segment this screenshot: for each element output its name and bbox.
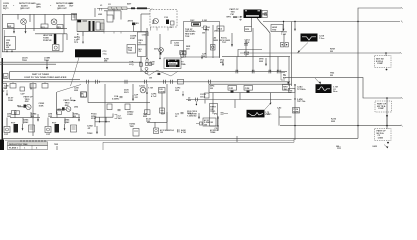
stage B driver sym <box>45 127 51 133</box>
wire top bus <box>2 13 77 15</box>
node lower mid <box>196 101 197 105</box>
wire bracket over q4 <box>171 41 184 48</box>
arrow mid left <box>71 100 76 102</box>
driver stage mid components b <box>57 107 67 110</box>
node j1 <box>386 97 388 99</box>
label dial L1C2 <box>100 4 112 7</box>
label 17m dius <box>333 86 338 93</box>
label c2ca 100 <box>200 93 206 98</box>
svg-text:STAT: STAT <box>130 37 136 40</box>
wire vertical c214 <box>245 40 247 57</box>
cap C30 pair <box>146 58 161 66</box>
node agc jct <box>385 52 387 56</box>
svg-text:LM: LM <box>202 56 205 58</box>
K214 box corner <box>238 50 262 57</box>
wire vertical sect e2 <box>291 22 293 87</box>
wire bus feed arrows <box>283 22 296 32</box>
node j7 <box>294 98 295 99</box>
wire vertical mid col a <box>205 28 207 58</box>
label 4c21 tm2 <box>146 117 152 122</box>
arrow det col <box>132 95 134 101</box>
node j3 <box>386 125 388 127</box>
arrow k2 <box>198 113 200 119</box>
label deflector header <box>9 144 38 150</box>
label c22 j2 <box>175 113 180 117</box>
wire vertical v3c <box>29 14 31 22</box>
label rate hon <box>138 40 143 53</box>
label jm2cop4 <box>187 110 198 117</box>
transistor Q4 detector <box>154 48 163 55</box>
node j5 <box>357 21 358 22</box>
resistor R1 <box>8 24 15 28</box>
wire vertical q205 <box>252 28 254 57</box>
label c72 <box>103 51 108 55</box>
bottom strip dark segment <box>5 139 294 141</box>
wire vertical v3 <box>33 14 35 28</box>
svg-text:NPO: NPO <box>227 17 232 19</box>
label come stat <box>130 35 137 39</box>
box HOW7HD <box>271 25 283 32</box>
antenna tap <box>132 23 135 32</box>
note arrow TP1 <box>82 32 84 45</box>
svg-text:TRE: TRE <box>128 50 133 52</box>
label po24 <box>91 112 97 120</box>
wire lower main bus <box>3 81 290 83</box>
wire vertical audio col <box>294 84 296 140</box>
label lor loq <box>129 62 134 66</box>
vertical x240 <box>239 93 241 100</box>
svg-text:C2P: C2P <box>4 134 9 136</box>
label jpm2 <box>22 57 28 62</box>
label c2r boxes b <box>244 86 253 93</box>
transistor Q1 <box>21 19 27 25</box>
label ground ned <box>185 26 210 38</box>
resistor RF2 box <box>245 27 252 32</box>
converter Q3 internals <box>151 20 175 31</box>
wire vertical lower r2 <box>234 100 236 109</box>
cap tick k1 <box>181 113 184 114</box>
cap tick lower mid <box>196 98 198 102</box>
label roes treo <box>128 47 133 51</box>
svg-text:LOQ: LOQ <box>129 64 134 66</box>
wire audio diag arrow <box>265 93 272 110</box>
label coml tuc <box>202 53 207 57</box>
svg-text:1.5M: 1.5M <box>142 34 147 36</box>
label 172 jm2 <box>265 112 271 116</box>
wire bottom bus <box>3 137 358 139</box>
svg-text:T2P-THz: T2P-THz <box>297 101 305 103</box>
box tone <box>133 129 139 137</box>
if amp box small <box>81 92 87 97</box>
label mp2 box right <box>283 85 290 91</box>
svg-text:JM: JM <box>210 88 213 90</box>
svg-text:JM: JM <box>336 146 339 148</box>
label c243 <box>118 115 122 119</box>
node j5b <box>283 21 284 22</box>
tuner box bottom <box>10 78 81 80</box>
svg-text:C204: C204 <box>174 44 180 47</box>
svg-text:QRN: QRN <box>36 6 41 8</box>
arrow vol pot 1 <box>222 60 224 66</box>
bracket right mid <box>281 73 289 84</box>
svg-text:C2R: C2R <box>229 88 234 90</box>
wire vertical lower l7 <box>161 93 163 114</box>
box mc bottom right <box>145 110 151 115</box>
svg-text:1M42: 1M42 <box>64 121 70 124</box>
label ant2 <box>128 19 140 25</box>
capacitor C2 arrow gnd <box>25 31 27 33</box>
black box audio waveform W2 <box>247 110 265 118</box>
svg-text:7.7M: 7.7M <box>148 87 153 89</box>
wire divider lower <box>0 63 56 65</box>
svg-text:TMP: TMP <box>150 64 155 66</box>
svg-text:100K: 100K <box>8 100 14 102</box>
dashed box converter section <box>150 10 177 28</box>
wire if bus <box>88 102 150 104</box>
cap ticks bus82 g <box>208 80 210 84</box>
label c3 top <box>69 3 74 7</box>
cap ticks bus82 d <box>145 80 147 84</box>
ticks row bottom left <box>21 140 45 143</box>
svg-text:4.7M: 4.7M <box>181 131 186 134</box>
stage B out box <box>71 125 77 132</box>
cap tick if bus <box>118 110 121 111</box>
antenna rod L1 <box>97 7 152 11</box>
svg-text:PW: PW <box>264 15 267 17</box>
svg-text:7.5u: 7.5u <box>103 53 108 55</box>
left double line <box>3 30 5 52</box>
svg-text:7.1M: 7.1M <box>245 42 250 44</box>
resistor R4 drop <box>33 29 35 31</box>
capacitor C1 arrow gnd <box>13 31 15 33</box>
node j6 <box>294 125 295 126</box>
wire vertical drop d2 <box>252 57 254 72</box>
wire left column <box>2 14 4 52</box>
svg-text:C2MP: C2MP <box>377 63 383 65</box>
label k2m bus <box>331 119 336 123</box>
transistor Q3 converter <box>153 18 158 23</box>
wire vertical v4 <box>44 14 46 24</box>
driver stage mid components a <box>18 105 26 108</box>
arrow vol pot 2 <box>265 58 267 66</box>
svg-text:4M: 4M <box>31 115 34 118</box>
dark chip marks <box>231 91 250 93</box>
wire end ticks right <box>400 7 403 127</box>
label c2p 9m2 <box>143 113 148 117</box>
resistor R40 box <box>15 111 20 115</box>
wire vertical v3b <box>17 14 19 19</box>
wire diagonal lower <box>57 85 81 93</box>
wire vertical lower l8 <box>166 84 168 130</box>
svg-text:MMW: MMW <box>293 112 299 114</box>
speaker sym S1 <box>53 45 60 51</box>
resistor RC2 box <box>217 26 224 31</box>
wire vertical lower l2 <box>56 92 58 114</box>
svg-text:7.5us: 7.5us <box>319 38 325 40</box>
label j2m4 mid b <box>64 118 70 123</box>
wire lower right bus <box>209 92 292 94</box>
svg-text:4M: 4M <box>73 115 76 118</box>
svg-text:T2T-MHz: T2T-MHz <box>297 89 306 91</box>
transistor Q6 driver <box>26 104 31 109</box>
stage A arrow gnd <box>22 124 24 131</box>
arrow cap c e <box>182 91 184 97</box>
row boxes under bus <box>3 82 48 88</box>
svg-text:T2M2: T2M2 <box>87 133 93 135</box>
box left KES <box>127 45 136 54</box>
label 4c21 70m4 <box>210 129 216 134</box>
cap ticks bus82 e <box>164 80 166 84</box>
V wire detector <box>141 70 178 77</box>
capacitor C5 electrolytic <box>54 34 57 44</box>
svg-text:COMP PO TUN TUNES TEREO AMPLIF: COMP PO TUN TUNES TEREO AMPLIFIER <box>24 76 67 79</box>
box oscillator coil L2 <box>184 22 220 58</box>
wire detector arrow diagonal <box>315 78 321 84</box>
wire arrow into divider <box>46 60 48 70</box>
label 4c21 box <box>204 119 214 127</box>
wire vertical lower r1 <box>212 93 214 114</box>
arrow agc left <box>231 33 233 47</box>
resistor R41 box <box>57 111 62 115</box>
label osc coil <box>190 20 207 22</box>
wire vertical v5 <box>63 14 65 34</box>
box 120 <box>159 88 166 94</box>
cap c5a tick <box>120 97 123 98</box>
svg-text:2P42: 2P42 <box>91 117 97 120</box>
label 4c2 long <box>160 129 174 134</box>
box mc1 <box>81 92 87 97</box>
wire vertical lower l5 <box>132 84 134 99</box>
svg-text:ANT2: ANT2 <box>128 19 134 22</box>
wire right top feed <box>263 21 400 23</box>
label lotr <box>281 31 287 35</box>
label part of trio b <box>64 99 74 107</box>
svg-text:RQ71: RQ71 <box>3 8 9 10</box>
cap ticks bus82 c <box>125 80 127 84</box>
svg-text:12M4: 12M4 <box>378 137 384 140</box>
connector P2 circles <box>145 67 148 74</box>
svg-text:1M: 1M <box>204 125 207 127</box>
label c2c 70m <box>215 128 220 132</box>
label t2mot <box>293 108 300 114</box>
label detector2 <box>56 2 73 10</box>
label c2p half <box>134 94 139 98</box>
label j2m4 mid a <box>23 118 29 123</box>
wire diagonal long <box>71 58 80 87</box>
svg-text:2.2M: 2.2M <box>202 20 207 22</box>
svg-text:LM: LM <box>4 76 7 78</box>
bottom labels row <box>337 145 388 149</box>
dashed box jack mid <box>375 101 392 112</box>
svg-text:7.5us: 7.5us <box>266 113 272 115</box>
svg-text:1M: 1M <box>202 32 205 34</box>
resistor boxes on if bus a <box>107 104 112 110</box>
label band left edge <box>208 84 210 92</box>
wire vertical v7 <box>66 34 68 40</box>
svg-text:7HD: 7HD <box>272 29 277 31</box>
svg-text:TRIO: TRIO <box>44 60 49 62</box>
label c2m tmp <box>150 61 155 65</box>
label 3pm <box>259 58 264 62</box>
stage A driver sym <box>4 127 10 133</box>
wire vertical lower l4 <box>104 84 106 136</box>
cap C214 sym <box>244 44 248 46</box>
wire into converter <box>141 14 150 32</box>
cap ticks bus71 c <box>269 70 271 74</box>
svg-text:QRD OUT: QRD OUT <box>20 8 30 10</box>
label conv q3 <box>164 17 169 19</box>
connector CN1 <box>281 43 289 47</box>
label help me <box>43 35 53 42</box>
node j2 <box>386 115 388 117</box>
label c2m p <box>87 125 93 135</box>
label 3p2 <box>220 59 225 63</box>
box left of that <box>210 104 218 127</box>
svg-text:C2P: C2P <box>161 113 166 115</box>
cap ticks bus71 b <box>252 70 254 74</box>
label ty tma <box>181 61 186 65</box>
transistor Q5 af amp <box>140 87 146 93</box>
push-pull stage A wires <box>7 112 40 126</box>
label coupler <box>98 14 103 16</box>
svg-text:4.7uF: 4.7uF <box>151 95 157 98</box>
node j4 <box>357 125 358 126</box>
wire y99 lower <box>205 99 292 101</box>
wire vertical lower l6 <box>146 84 148 114</box>
cap ticks bus82 a <box>86 80 88 84</box>
wire agc bus <box>240 52 400 54</box>
label q5 <box>139 84 153 89</box>
wire vertical xfmr feed <box>94 8 96 17</box>
dual cap C12 <box>180 51 186 59</box>
label L3 <box>152 21 156 25</box>
box LM left <box>4 74 9 79</box>
label lom4 <box>44 58 51 62</box>
wire vertical det col <box>159 34 161 59</box>
label qrd <box>36 4 41 8</box>
arrow left small <box>30 84 32 90</box>
black box ratio detector <box>164 58 181 69</box>
label tm2 2m <box>330 72 335 76</box>
vert line w dots <box>217 116 218 130</box>
arrow vol gnd <box>96 126 98 134</box>
resistor R20 on bus <box>178 79 184 84</box>
arrow stage A <box>37 118 39 122</box>
label c2m jm2 diag <box>74 87 79 91</box>
wire vertical lower l1 <box>32 84 34 136</box>
osc box feed <box>233 16 242 21</box>
lower mid wires k <box>147 112 167 128</box>
label c2m 100 <box>39 103 45 107</box>
svg-text:1M: 1M <box>160 132 163 134</box>
label dashed bottom right <box>377 129 387 139</box>
wire vertical v2 <box>25 25 27 32</box>
resistor boxes on if bus b <box>125 104 130 110</box>
svg-text:4M: 4M <box>188 99 191 102</box>
svg-text:3Dh: 3Dh <box>154 48 159 50</box>
box small l7 <box>160 108 165 113</box>
wire b+ bus <box>285 78 401 98</box>
svg-text:2M: 2M <box>330 75 333 77</box>
dark slug L2 core <box>192 23 201 27</box>
label pot b <box>52 122 57 124</box>
black box audio waveform W1 <box>316 84 332 93</box>
wire lower mid h <box>186 99 205 101</box>
label c2a 55 <box>112 95 119 100</box>
shield box IF transformer T1 <box>77 20 104 32</box>
label kool <box>219 37 230 44</box>
label box 2M <box>289 88 296 92</box>
stage B pot dark <box>55 124 60 133</box>
wire left mid bottom <box>2 51 63 53</box>
label mc2 <box>81 93 85 97</box>
svg-text:1.3M: 1.3M <box>244 54 249 56</box>
svg-text:100.2: 100.2 <box>200 97 206 99</box>
label amed <box>214 36 219 41</box>
svg-text:LM: LM <box>214 30 217 32</box>
svg-text:7.1M: 7.1M <box>281 34 286 36</box>
svg-text:TO: TO <box>138 51 141 53</box>
tuner box left edge <box>9 72 11 80</box>
svg-text:MN: MN <box>104 60 108 62</box>
wire top-left lower line <box>3 28 67 30</box>
cap tick a2m <box>177 129 179 132</box>
label c214 <box>245 38 251 43</box>
svg-text:RES: RES <box>57 27 62 29</box>
label part of trio a <box>24 95 34 103</box>
stage B arrow gnd <box>64 124 66 131</box>
label pot a <box>11 122 16 124</box>
bracket c243 <box>115 115 118 119</box>
label c2a3 <box>297 85 306 90</box>
label khm 2m <box>330 48 335 52</box>
converter feed corner <box>134 32 149 37</box>
svg-text:PURPLE: PURPLE <box>43 40 52 42</box>
svg-text:PM: PM <box>231 14 234 16</box>
capacitor C3 tuning <box>72 14 77 21</box>
small box left band <box>205 93 210 98</box>
label a2m 47 <box>181 129 186 134</box>
label part of tm1 <box>230 8 240 16</box>
svg-text:LM: LM <box>6 47 9 49</box>
svg-text:100K: 100K <box>39 106 45 108</box>
svg-text:DEFLECTOR TIME: DEFLECTOR TIME <box>9 144 28 146</box>
wire section divider <box>0 61 141 63</box>
svg-text:PLANE 1: PLANE 1 <box>9 147 19 150</box>
node j5c <box>294 21 295 22</box>
resistor R2 <box>41 24 48 28</box>
wire vertical left sub <box>62 34 64 52</box>
stage A pot dark <box>14 124 19 133</box>
wire curve from osc box <box>257 18 270 33</box>
wire vertical mixer col <box>140 57 142 72</box>
cap ticks bus82 b <box>96 80 100 84</box>
svg-text:1M: 1M <box>149 78 152 80</box>
cap pair lower <box>196 122 202 125</box>
page left edge bar <box>0 0 4 150</box>
wire vertical lower l3 <box>87 84 89 103</box>
box 4c21 <box>203 118 216 126</box>
wire top right branch <box>358 8 401 22</box>
jack box left big box <box>181 52 186 58</box>
arrow top mid <box>201 55 203 59</box>
box lower mid sym <box>154 128 159 134</box>
wire vertical mid col c <box>219 28 221 58</box>
svg-text:TRIO: TRIO <box>22 60 27 62</box>
svg-text:1M42: 1M42 <box>23 121 29 124</box>
wire vertical c216 <box>269 33 271 57</box>
label ser200 <box>186 46 191 50</box>
